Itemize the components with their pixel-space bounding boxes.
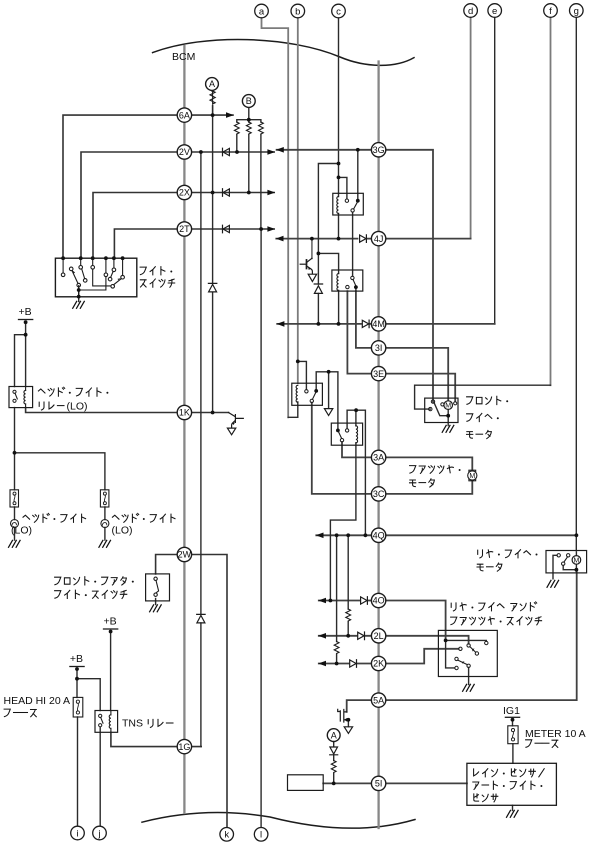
svg-text:d: d xyxy=(468,6,473,17)
+B symbol headlight relay xyxy=(19,319,33,321)
front wiper motor box xyxy=(425,398,458,422)
pin 2W xyxy=(177,547,191,561)
diode D5 on branch line xyxy=(314,284,322,293)
ground rain sensor xyxy=(507,810,519,817)
open triangle MOSFET source xyxy=(344,727,352,734)
node front wiper ground xyxy=(446,414,450,418)
open triangle Q2 emitter xyxy=(227,428,235,435)
svg-text:3C: 3C xyxy=(373,489,385,499)
resistor R2 (4Q to 2K leg) xyxy=(334,642,339,654)
front wiper motor M xyxy=(444,401,453,410)
pin 4M xyxy=(371,317,385,331)
node headlight split xyxy=(13,451,17,455)
svg-text:+B: +B xyxy=(70,653,83,665)
relay U2 box xyxy=(332,270,363,291)
+B symbol upper (TNS coil) xyxy=(104,628,118,630)
svg-text:2X: 2X xyxy=(179,188,190,198)
ground light switch xyxy=(73,301,85,308)
wire: row 5I from connector box to rain sensor xyxy=(323,782,467,784)
washer motor M xyxy=(469,470,476,481)
svg-text:4Q: 4Q xyxy=(373,531,385,541)
label フロント・ワイパ・モータ (front wiper) xyxy=(467,396,509,438)
wire: circle A to resistor to 6A row xyxy=(211,91,214,116)
wire: b-line jog to relay U3 fixed contact xyxy=(298,361,307,389)
svg-text:(LO): (LO) xyxy=(67,401,88,413)
BCM terminal circles xyxy=(177,78,386,791)
wire: row 3I to front wiper motor xyxy=(356,291,448,401)
resistor R3 above 5I xyxy=(331,761,336,773)
wire: row 4O to rear washer switch xyxy=(319,601,446,641)
node +B1 branch xyxy=(24,333,28,337)
node e xyxy=(488,4,502,18)
svg-text:3A: 3A xyxy=(373,453,384,463)
wire: row 1K from headlight relay to transistor xyxy=(26,408,229,413)
node 6A/A-line xyxy=(211,113,215,117)
node 2V/1G-line xyxy=(199,150,203,154)
node c-line jog2 xyxy=(337,176,341,180)
wire: rear washer switch ground xyxy=(468,668,470,685)
wire: net 2T to connector l vertical xyxy=(260,229,262,828)
wire: row 3G with right branch down to front wiper park xyxy=(277,150,433,402)
rear washer switch contacts xyxy=(467,644,470,647)
diode D11 on 2K row xyxy=(350,660,357,668)
diode D3 on 2T row xyxy=(223,225,230,233)
wire: light switch ground stub xyxy=(78,286,80,302)
module boundary arc (bottom) xyxy=(142,813,415,829)
node d xyxy=(464,4,478,18)
pin 3A xyxy=(371,450,385,464)
svg-text:M: M xyxy=(469,473,475,480)
svg-text:5I: 5I xyxy=(375,779,383,789)
svg-text:3I: 3I xyxy=(375,343,383,353)
pin 6A xyxy=(177,108,191,122)
node 4J/Q1 collector xyxy=(310,237,314,241)
ground front wiper xyxy=(442,425,454,432)
diode D12 below circle A2 xyxy=(330,747,338,755)
arrow left on 2K row xyxy=(318,661,326,667)
wire: connector g lead xyxy=(575,17,577,550)
wire: transistor Q1 collector from 4J row xyxy=(311,239,313,259)
node B bus xyxy=(247,118,251,122)
wire: relay U1 output to relay U2 fixed contact xyxy=(352,212,354,276)
pin 2T xyxy=(177,222,191,236)
node 4O/U4 coil leg xyxy=(329,599,333,603)
headlight bulb left xyxy=(11,520,19,528)
wire: rear washer switch internal from 4O xyxy=(446,640,487,668)
svg-text:(LO): (LO) xyxy=(112,525,133,537)
diode D2 on 2X row xyxy=(223,189,230,197)
BCM main vertical line xyxy=(183,46,185,813)
svg-text:6A: 6A xyxy=(179,110,190,120)
wire: row 4Q to rear wiper motor g-line junction xyxy=(316,534,576,536)
wire: relay U2 common output to 3I row xyxy=(355,289,357,291)
node 5I/R3 xyxy=(332,782,336,786)
label リレー (TNS) xyxy=(148,719,173,727)
IG1 symbol xyxy=(505,716,519,718)
node 2T/RB3/l-line xyxy=(259,227,263,231)
wire: rear wiper park switch ground xyxy=(553,555,557,579)
arrow left on 2L row xyxy=(318,633,326,639)
wire: row 1G from TNS relay coil, right branch xyxy=(111,732,201,746)
node 2K/R2 xyxy=(335,662,339,666)
headlight bulb right xyxy=(101,520,109,528)
node b-line/U3 jog xyxy=(296,360,300,364)
wire: row 3A from relay-4 contact to washer motor xyxy=(342,442,472,471)
wire: row 4M to connector e xyxy=(277,323,495,325)
svg-text:2W: 2W xyxy=(178,550,192,560)
wire: row 2L to rear washer switch xyxy=(319,636,469,644)
label ヘッド・ライト (LO) right bulb xyxy=(112,513,175,522)
arrow left on 4M row xyxy=(277,321,285,327)
pin 2L xyxy=(371,629,385,643)
ground rear wiper xyxy=(547,580,559,587)
pin 3G xyxy=(371,143,385,157)
svg-text:(LO): (LO) xyxy=(11,525,32,537)
svg-text:TNS: TNS xyxy=(122,718,143,730)
label フューズ (HEAD HI) xyxy=(4,709,36,717)
pin 2X xyxy=(177,185,191,199)
pin 3E xyxy=(371,366,385,380)
label リヤ・ワイパ アンド ウオッシャ・スイッチ xyxy=(451,602,542,625)
node 4Q/2K leg xyxy=(335,533,339,537)
wire: connector d lead xyxy=(470,17,472,238)
headlight fuse F1 xyxy=(10,490,19,507)
rear washer switch box xyxy=(438,630,497,676)
ground headlight right xyxy=(99,540,111,547)
label ヘッド・ライト (LO) left bulb xyxy=(23,513,86,522)
wire: net A/6A/2X/1K vertical with diode xyxy=(212,106,214,413)
node washer switch 4O xyxy=(444,639,448,643)
wire: rail to relay U3 common and relay U4 common xyxy=(316,372,338,429)
svg-text:4O: 4O xyxy=(373,596,385,606)
pin 4O xyxy=(371,593,385,607)
diode D6 on 2V-1G line xyxy=(197,614,205,623)
node 2X/RB2 xyxy=(247,191,251,195)
arrow right on 2V row xyxy=(267,149,275,155)
pin 3I xyxy=(371,341,385,355)
headlight relay box xyxy=(9,387,33,408)
diode D1 on 2V row xyxy=(223,148,230,156)
node light switch ground xyxy=(77,288,81,292)
node 2L/R1 xyxy=(346,634,350,638)
wire: IG1 to METER fuse to rain sensor xyxy=(512,720,514,764)
svg-text:M: M xyxy=(573,558,579,565)
headlight relay coil xyxy=(25,387,27,408)
svg-text:HEAD HI 20 A: HEAD HI 20 A xyxy=(4,695,71,707)
wire: connector b lead xyxy=(297,18,299,383)
arrow left on 4Q row xyxy=(316,533,324,539)
wire: row 2X with left riser to light switch xyxy=(93,193,274,259)
METER fuse box xyxy=(508,726,518,744)
node A2 xyxy=(327,729,340,742)
diode D9 on 4O row xyxy=(361,597,368,605)
ground headlight left xyxy=(9,540,21,547)
svg-text:g: g xyxy=(574,6,579,17)
transistor Q1 xyxy=(300,263,306,265)
node b xyxy=(291,4,305,18)
wire: front wiper park switch to f-line xyxy=(415,385,551,409)
node A xyxy=(206,78,219,91)
svg-text:l: l xyxy=(260,830,262,841)
HEAD HI fuse xyxy=(73,697,83,717)
front wiper park contacts xyxy=(431,400,434,403)
svg-text:A: A xyxy=(331,730,337,740)
wire: row 5A from MOSFET to rear wiper motor xyxy=(347,572,577,712)
node 4J/U1 coil xyxy=(337,237,341,241)
node 4Q/U4 jog leg xyxy=(364,533,368,537)
resistor R1 (4Q to 2L leg) xyxy=(346,609,351,621)
svg-text:METER 10 A: METER 10 A xyxy=(525,728,586,740)
svg-text:B: B xyxy=(246,96,252,106)
node B xyxy=(242,95,255,108)
label リヤ・ワイパ・モータ (rear wiper) xyxy=(477,550,538,572)
wire: row 2K to rear washer switch xyxy=(319,649,459,664)
node c xyxy=(332,4,346,18)
svg-text:IG1: IG1 xyxy=(503,705,520,717)
resistor RA below circle A xyxy=(210,91,215,104)
rear wiper motor M xyxy=(572,556,581,565)
wire: front wiper motor ground net xyxy=(434,403,448,426)
diode D8 on 4M row xyxy=(362,320,369,328)
svg-text:2V: 2V xyxy=(179,147,190,157)
node rail/triangle xyxy=(327,370,331,374)
node i xyxy=(71,826,85,840)
wire: MOSFET source to triangle xyxy=(347,720,349,727)
TNS relay box xyxy=(95,711,118,733)
wire: relay U4 coil bottom to 4O row xyxy=(330,443,356,601)
resistor RB1 xyxy=(234,122,239,134)
wire: connector a lead xyxy=(262,18,289,418)
wire: rear wiper motor bottom junction xyxy=(563,552,576,572)
svg-text:A: A xyxy=(209,79,215,89)
wire: 4Q row branch down to 2L row xyxy=(347,535,349,636)
diode D4 on A/2X/1K line xyxy=(208,283,216,292)
wire: c-line jog left to diode branch xyxy=(318,164,338,324)
light switch box xyxy=(55,258,136,297)
svg-text:2T: 2T xyxy=(179,224,190,234)
node 1K/A-line xyxy=(211,411,215,415)
wire: rain sensor ground stub xyxy=(512,805,514,810)
wire: relay U1 coil to 4J row xyxy=(338,193,340,238)
wire: 3G row to relay U1 common xyxy=(357,150,359,199)
svg-text:M: M xyxy=(445,403,451,410)
label フューズ (METER) xyxy=(526,740,558,748)
node 2X/A-line xyxy=(211,191,215,195)
ground rear washer switch xyxy=(463,684,475,691)
svg-text:+B: +B xyxy=(19,306,32,318)
wire: relay U4 jog fixed contact and coil top xyxy=(347,410,365,535)
wire: 4Q row branch down to 2K row xyxy=(336,535,338,663)
headlight fuse F2 xyxy=(100,490,109,507)
svg-text:f: f xyxy=(549,6,552,17)
open triangle (internal ground) Q1 emitter xyxy=(308,274,316,281)
label ウオッシャ・モータ (washer) xyxy=(410,465,461,487)
node +B3 branch xyxy=(75,677,79,681)
connector box at 5I left xyxy=(288,775,324,791)
node 3G/U1 common xyxy=(356,148,360,152)
relay U1 coil xyxy=(337,197,339,214)
pin 4Q xyxy=(371,528,385,542)
node 4M/branch xyxy=(317,322,321,326)
svg-text:4J: 4J xyxy=(374,234,384,244)
TNS relay coil xyxy=(110,711,112,733)
wire: circle B bus to pull-up resistors xyxy=(237,108,261,230)
node c-line jog1 xyxy=(337,162,341,166)
wire: relay U3 coil bottom to a-line xyxy=(288,402,298,417)
svg-text:4M: 4M xyxy=(372,319,385,329)
node MOSFET source xyxy=(347,718,351,722)
wire: TNS relay contact output to connector j xyxy=(99,728,101,827)
node U4 jog xyxy=(354,408,358,412)
svg-text:2L: 2L xyxy=(374,631,384,641)
svg-text:3G: 3G xyxy=(373,145,385,155)
relay U3 coil xyxy=(296,385,298,402)
TNS relay contact xyxy=(99,714,102,717)
node k xyxy=(220,828,234,842)
diode D10 on 2L row xyxy=(358,632,365,640)
front fog light switch box xyxy=(146,574,170,601)
wire: diode branch jog to relay U2 coil xyxy=(318,253,338,324)
svg-text:e: e xyxy=(492,6,497,17)
diode D7 on 4J row xyxy=(360,235,367,243)
pin 1K xyxy=(177,405,191,419)
node light switch terminals xyxy=(61,256,65,260)
headlight relay contact xyxy=(13,390,16,393)
relay U2 coil xyxy=(337,274,339,291)
node j xyxy=(93,826,107,840)
node branch/U2 coil xyxy=(317,252,321,256)
relay U2 contact xyxy=(351,276,354,279)
open triangle below rail xyxy=(324,409,332,416)
wire: +B feed to TNS relay coil xyxy=(110,631,112,710)
svg-text:b: b xyxy=(295,6,300,17)
relay U3 box xyxy=(292,383,323,405)
wire: fog switch to ground stub xyxy=(155,599,157,605)
arrow left on 4J row xyxy=(276,236,284,242)
label ライト・スイッチ xyxy=(140,267,175,288)
wire: row 2T with left riser to light switch xyxy=(114,229,274,258)
arrow right on 6A row xyxy=(226,112,234,118)
svg-text:c: c xyxy=(336,6,341,17)
wire: c-line jog right to relay U1 fixed contact xyxy=(339,177,347,198)
wire: row 4J to connector d xyxy=(276,238,470,240)
svg-text:a: a xyxy=(259,6,265,17)
relay U3 contact xyxy=(305,390,308,393)
wire: row 2W from fog switch, right branch down to connector k xyxy=(156,555,227,828)
rear wiper motor box xyxy=(546,551,587,573)
node f xyxy=(544,4,558,18)
svg-text:5A: 5A xyxy=(373,695,384,705)
node 2V/RB1 xyxy=(235,150,239,154)
wire: connector e lead xyxy=(494,17,496,324)
relay U1 contact xyxy=(345,199,348,202)
wire: net 2V-1G vertical with diode xyxy=(200,152,202,747)
wire: connector f lead xyxy=(550,17,552,385)
rain sensor box xyxy=(467,763,557,805)
node g xyxy=(570,4,584,18)
relay U1 box xyxy=(333,193,364,215)
pin 4J xyxy=(371,231,385,245)
label ヘッド・ライト・リレー (LO) xyxy=(38,387,108,410)
wire: row 3E to front wiper motor contact xyxy=(347,291,455,401)
arrow right on 2X row xyxy=(267,190,275,196)
rear wiper park contacts xyxy=(557,554,560,557)
arrow right on 2T row xyxy=(267,226,275,232)
module-2 main vertical line xyxy=(377,62,379,829)
svg-text:1K: 1K xyxy=(179,408,190,418)
light switch internal contacts and blades xyxy=(61,258,124,296)
pin 5A xyxy=(371,693,385,707)
arrow left on 4O row xyxy=(318,598,326,604)
node l xyxy=(254,828,268,842)
wire: headlight relay output to fuses and bulbs xyxy=(15,408,105,540)
svg-text:BCM: BCM xyxy=(172,51,195,63)
svg-text:3E: 3E xyxy=(373,369,384,379)
wire: row 3C from relay-3 contact to washer motor xyxy=(312,403,473,494)
svg-text:j: j xyxy=(97,828,100,839)
label レイン・センサ／オート・ライト・センサ xyxy=(473,769,544,802)
pin 3C xyxy=(371,487,385,501)
pin 2V xyxy=(177,145,191,159)
svg-text:1G: 1G xyxy=(178,742,190,752)
svg-text:+B: +B xyxy=(104,616,117,628)
pin 2K xyxy=(371,656,385,670)
node 4Q/g-line xyxy=(575,533,579,537)
BCM boundary arc (top) xyxy=(153,39,414,65)
relay U4 box xyxy=(331,423,362,445)
arrow left on 3G row xyxy=(276,147,284,153)
resistor RB2 xyxy=(246,122,251,134)
pin 5I xyxy=(371,776,385,790)
wire: circle A2 diode resistor chain to 5I row xyxy=(333,741,335,783)
node rear wiper motor bottom xyxy=(575,568,579,572)
svg-text:k: k xyxy=(224,830,229,841)
node 4Q/2L leg xyxy=(346,533,350,537)
+B symbol lower (HEAD HI) xyxy=(70,666,84,668)
label フロント・フォグ・ライト・スイッチ xyxy=(55,577,134,599)
relay U4 contact xyxy=(336,429,340,433)
relay U4 coil xyxy=(356,426,358,443)
resistor RB3 xyxy=(259,122,264,134)
wire: row 6A with left riser to light switch xyxy=(63,115,233,258)
MOSFET Q3 at 5A xyxy=(338,709,349,722)
svg-text:2K: 2K xyxy=(373,659,384,669)
node 4M/U2 coil xyxy=(337,322,341,326)
wire: +B feed to HEAD HI fuse and TNS relay contact xyxy=(77,669,100,827)
headlight relay feed from +B xyxy=(15,322,26,386)
pin 1G xyxy=(177,739,191,753)
wire: row 2V with left riser to light switch xyxy=(81,152,274,258)
node a xyxy=(255,4,269,18)
svg-text:i: i xyxy=(76,828,78,839)
wire: connector c lead xyxy=(338,18,340,194)
ground fog switch xyxy=(150,605,162,612)
transistor Q2 at 1K row xyxy=(229,413,244,428)
